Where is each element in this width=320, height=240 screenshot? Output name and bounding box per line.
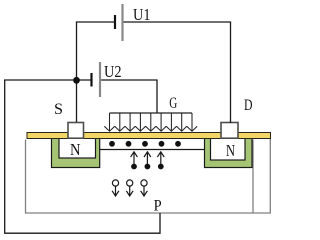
svg-text:N: N — [226, 141, 235, 160]
svg-text:G: G — [169, 95, 177, 112]
svg-text:U1: U1 — [133, 5, 151, 24]
svg-text:P: P — [154, 198, 162, 215]
svg-text:D: D — [244, 97, 253, 114]
svg-text:N: N — [70, 140, 81, 159]
svg-text:S: S — [54, 101, 63, 118]
svg-text:U2: U2 — [104, 62, 122, 81]
